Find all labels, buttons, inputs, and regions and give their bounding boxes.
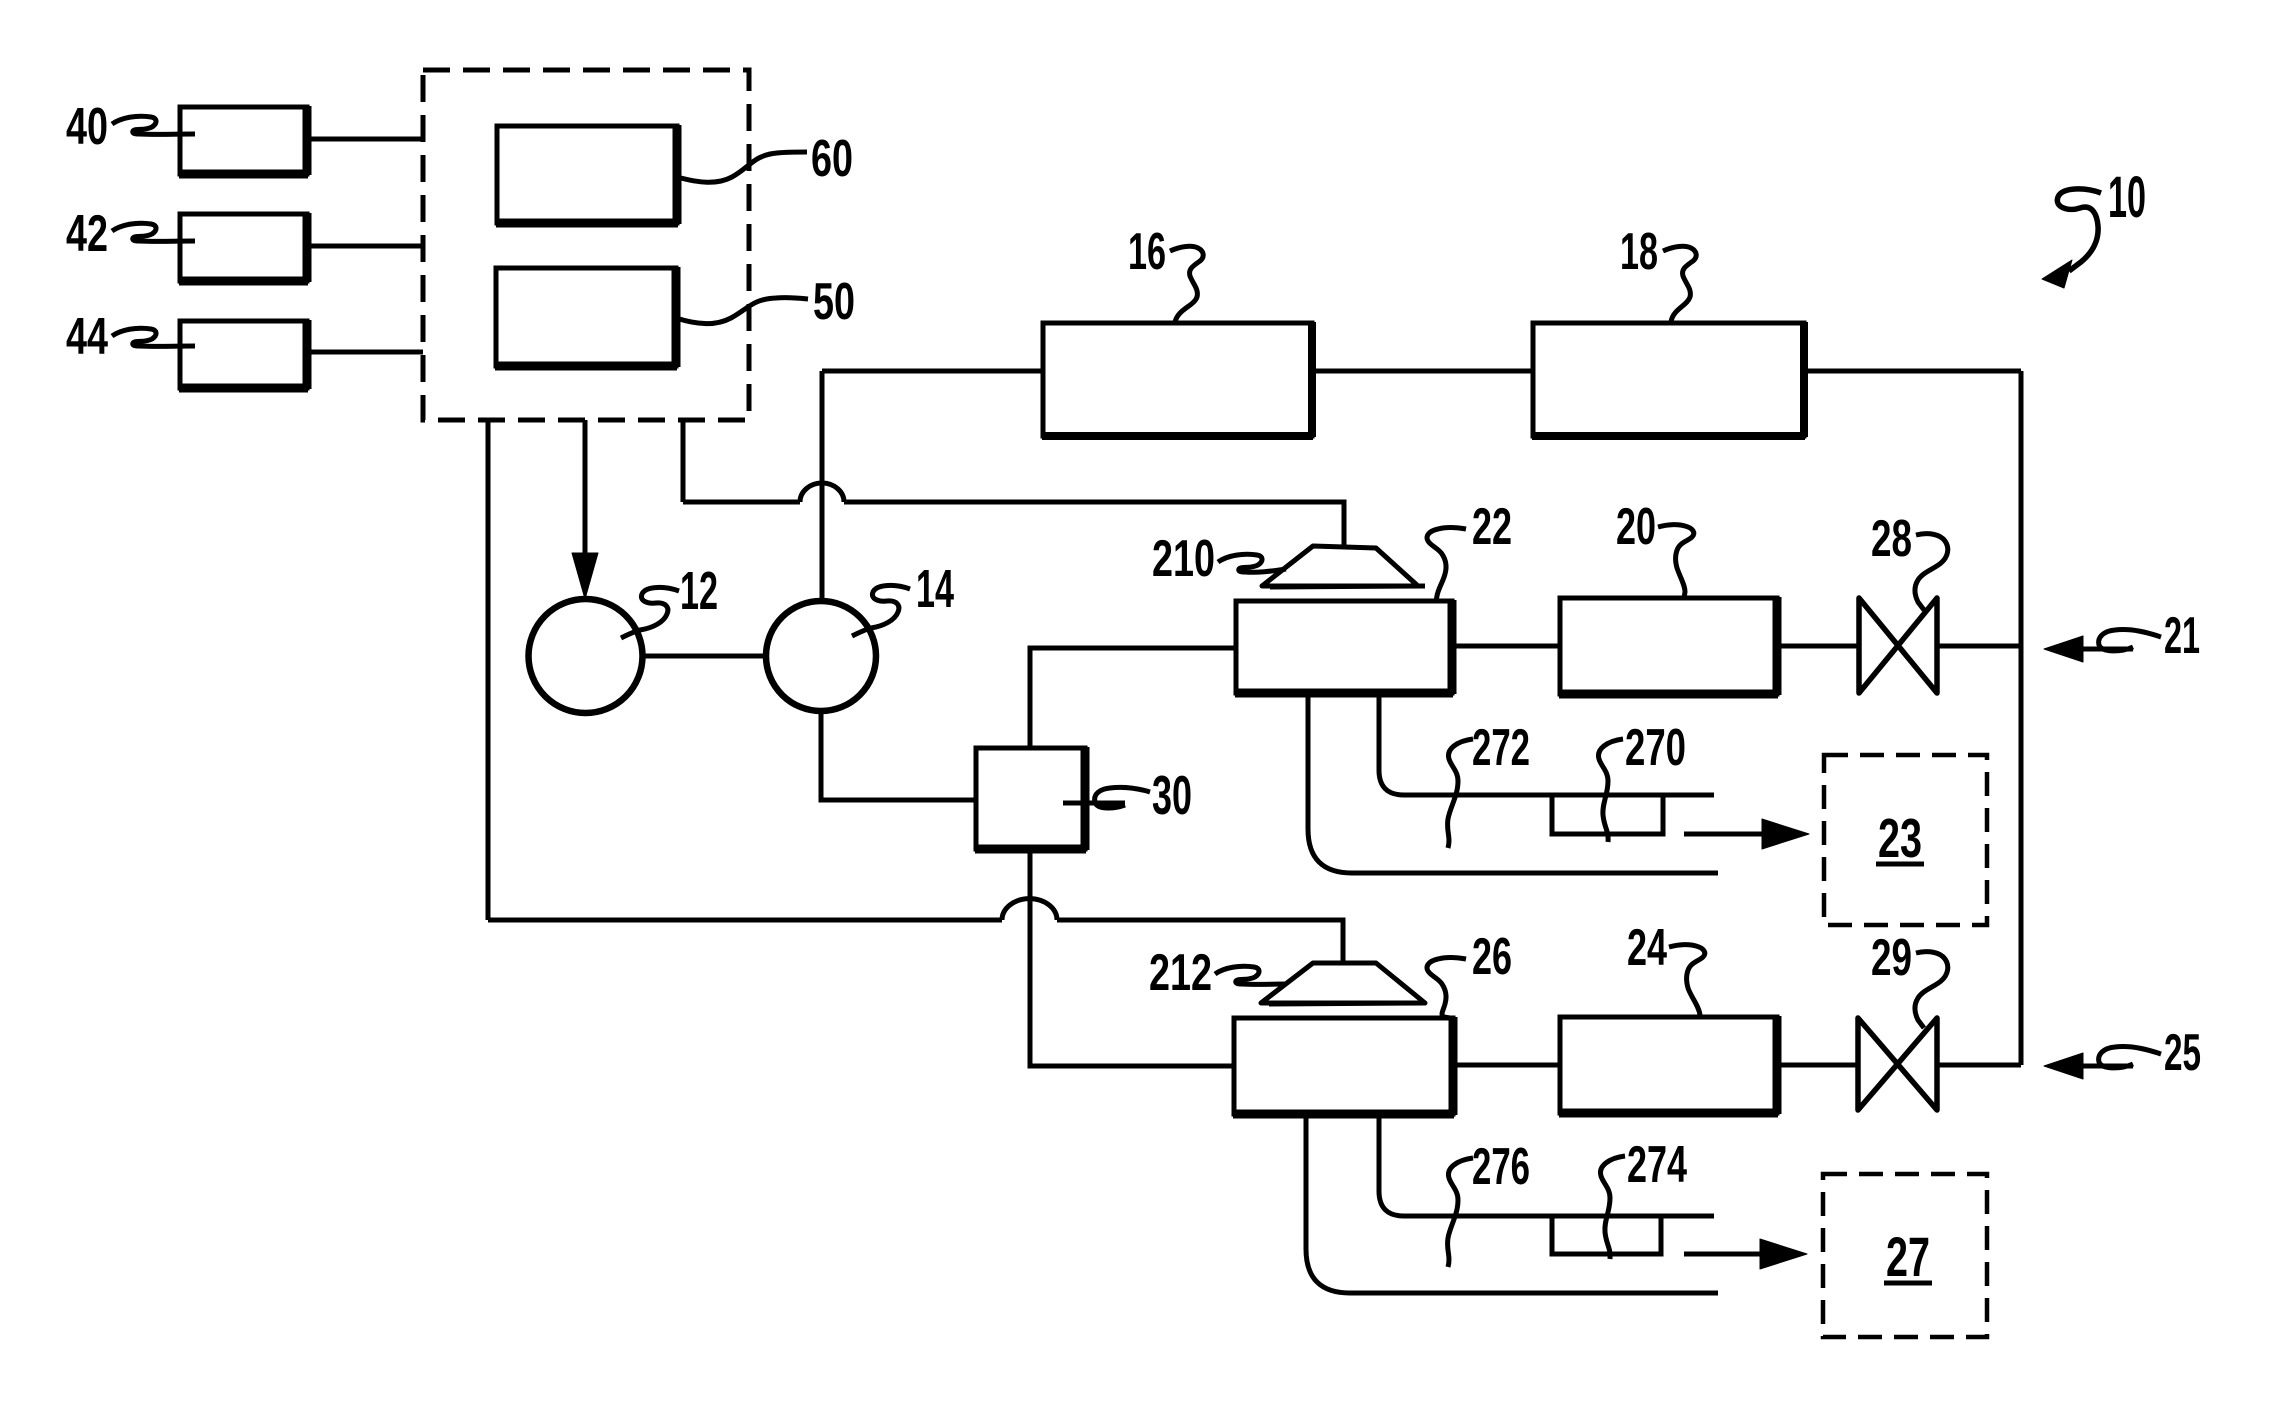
svg-text:26: 26 xyxy=(1472,929,1512,986)
svg-text:27: 27 xyxy=(1886,1226,1930,1288)
svg-text:270: 270 xyxy=(1625,718,1686,777)
svg-text:276: 276 xyxy=(1472,1138,1530,1196)
svg-text:14: 14 xyxy=(916,558,954,619)
svg-text:30: 30 xyxy=(1152,764,1192,826)
svg-text:44: 44 xyxy=(66,307,109,365)
svg-text:20: 20 xyxy=(1616,499,1656,556)
svg-text:210: 210 xyxy=(1152,529,1215,587)
svg-text:42: 42 xyxy=(66,204,108,262)
svg-text:10: 10 xyxy=(2108,166,2146,231)
svg-text:212: 212 xyxy=(1149,943,1212,1001)
svg-text:25: 25 xyxy=(2164,1024,2201,1082)
svg-text:40: 40 xyxy=(66,97,108,155)
svg-text:272: 272 xyxy=(1472,719,1530,777)
svg-text:21: 21 xyxy=(2164,607,2200,665)
svg-text:22: 22 xyxy=(1472,499,1512,556)
svg-text:24: 24 xyxy=(1627,920,1667,977)
svg-text:60: 60 xyxy=(811,129,853,187)
svg-text:274: 274 xyxy=(1627,1137,1687,1194)
svg-text:29: 29 xyxy=(1871,928,1912,987)
svg-text:16: 16 xyxy=(1128,223,1166,281)
svg-text:23: 23 xyxy=(1878,809,1922,870)
svg-text:28: 28 xyxy=(1871,509,1912,568)
svg-text:50: 50 xyxy=(813,272,855,330)
svg-text:18: 18 xyxy=(1620,223,1658,281)
svg-text:12: 12 xyxy=(680,560,718,621)
